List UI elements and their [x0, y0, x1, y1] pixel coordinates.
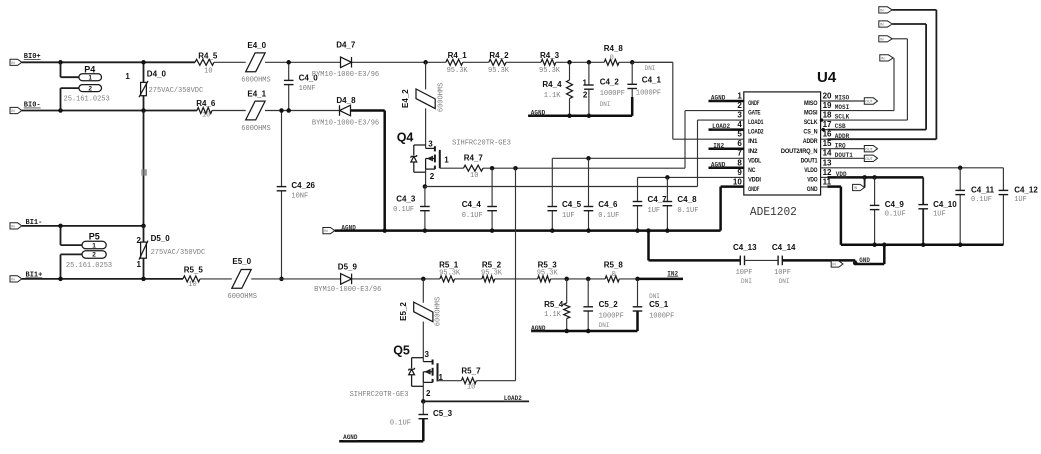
wire SCLK [827, 119, 907, 121]
svg-text:D4_8: D4_8 [336, 96, 356, 105]
node C4_8 bottom [665, 228, 670, 233]
resistor R5_4 [566, 279, 568, 303]
svg-text:18: 18 [823, 111, 832, 120]
capacitor C4_7 [637, 177, 639, 201]
svg-text:BYM10-1000-E3/96: BYM10-1000-E3/96 [314, 286, 381, 294]
wire P4 pin1 connection [60, 62, 62, 77]
svg-text:R5_8: R5_8 [604, 260, 624, 269]
capacitor C4_11 [959, 168, 961, 191]
node BI1+ junction P5 [58, 277, 63, 282]
svg-text:1: 1 [737, 91, 742, 100]
wire AGND to C4_13 [647, 231, 650, 261]
svg-text:C4_9: C4_9 [885, 200, 905, 209]
pin 3 LOAD1 [737, 119, 744, 121]
resistor R4_3 [541, 59, 556, 65]
svg-text:95.3K: 95.3K [439, 269, 461, 277]
port GND [831, 261, 843, 267]
svg-text:8: 8 [737, 158, 742, 167]
wire R5_7 to gate net [476, 380, 515, 382]
capacitor C4_3 [424, 187, 426, 207]
port CSB in [879, 21, 892, 27]
svg-text:C4_1: C4_1 [642, 76, 662, 85]
svg-text:10: 10 [733, 177, 742, 186]
IC U4 body [744, 92, 821, 195]
wire AGND segment lower [531, 330, 637, 333]
svg-text:BI1-: BI1- [26, 219, 43, 227]
resistor R5_8 [605, 276, 619, 282]
svg-text:IN: IN [324, 229, 328, 233]
svg-text:NC: NC [748, 167, 756, 174]
svg-text:E5_0: E5_0 [232, 257, 251, 266]
svg-text:P4: P4 [84, 64, 95, 74]
node D4_0 bottom [141, 108, 146, 113]
svg-text:OUT: OUT [865, 100, 873, 104]
svg-text:BI1+: BI1+ [26, 272, 43, 280]
svg-text:95.3K: 95.3K [481, 269, 503, 277]
svg-text:2: 2 [737, 101, 742, 110]
svg-text:C4_6: C4_6 [598, 200, 618, 209]
diode D4_8 [340, 105, 351, 116]
svg-text:1: 1 [88, 75, 92, 82]
node R5_7 gate junction [513, 166, 518, 171]
svg-text:LOAD2: LOAD2 [504, 395, 522, 402]
svg-text:BYM10-1000-E3/96: BYM10-1000-E3/96 [312, 120, 379, 128]
node C4_26 bottom [279, 277, 284, 282]
svg-text:DNI: DNI [649, 293, 660, 300]
svg-text:AGND: AGND [343, 434, 358, 441]
port DOUT1 out [864, 155, 877, 161]
svg-text:U4: U4 [817, 69, 837, 86]
svg-text:1UF: 1UF [648, 207, 661, 215]
node C4_26 top [279, 108, 284, 113]
node R5_4 top [564, 277, 569, 282]
svg-text:C4_7: C4_7 [648, 195, 668, 204]
wire P4 pin2 connection [60, 88, 62, 110]
svg-text:0.1UF: 0.1UF [393, 206, 414, 214]
resistor R4_1 [446, 59, 463, 65]
svg-text:0: 0 [610, 55, 614, 63]
svg-text:D4_7: D4_7 [336, 40, 356, 49]
resistor R5_2 [482, 276, 495, 282]
node C5_2 top [586, 277, 591, 282]
port ADDR in [879, 7, 892, 13]
resistor R4_4 [569, 62, 571, 80]
svg-text:2: 2 [92, 252, 96, 259]
svg-text:GND: GND [807, 186, 818, 193]
svg-text:10: 10 [188, 281, 196, 289]
pin 2 GATE [737, 110, 744, 112]
svg-text:1000PF: 1000PF [649, 312, 674, 320]
port IRQ out [864, 146, 877, 152]
pin 17 CS_N bubble [822, 128, 825, 131]
svg-text:IN2: IN2 [748, 148, 758, 155]
wire divider output to IN1 [632, 61, 673, 63]
svg-text:MOSI: MOSI [835, 104, 850, 111]
svg-text:IN1: IN1 [748, 138, 758, 145]
svg-text:25.161.0253: 25.161.0253 [66, 262, 112, 270]
node BI0+ / P4 junction [58, 60, 63, 65]
svg-text:C4_13: C4_13 [733, 243, 757, 252]
svg-text:C5_2: C5_2 [599, 300, 619, 309]
capacitor C4_0 [288, 62, 290, 80]
capacitor C4_9 [874, 177, 876, 205]
wire C4_13 to C4_14 [745, 259, 779, 261]
wire BI0- to BI1- vertical [143, 111, 145, 226]
svg-text:R4_2: R4_2 [489, 51, 509, 60]
svg-text:C4_14: C4_14 [772, 243, 796, 252]
svg-text:D5_0: D5_0 [151, 234, 171, 243]
svg-text:IN2: IN2 [667, 270, 678, 277]
svg-text:CSB: CSB [835, 123, 846, 130]
svg-text:P5: P5 [89, 231, 100, 241]
wire AGND bus [335, 229, 721, 232]
node D4_0 top [141, 60, 146, 65]
svg-text:GNDF: GNDF [748, 186, 759, 193]
pin 10 GNDF [737, 186, 744, 188]
svg-text:IRQ: IRQ [835, 142, 846, 149]
svg-text:CS_N: CS_N [803, 129, 817, 136]
node BI1- varistor junction [141, 224, 146, 229]
svg-text:BI0-: BI0- [24, 102, 41, 110]
node R4_4 bottom [567, 114, 572, 119]
diode D4_7 [341, 57, 352, 68]
svg-text:ADDR: ADDR [835, 133, 850, 140]
svg-text:MOSI: MOSI [804, 110, 818, 117]
svg-text:3: 3 [737, 111, 742, 120]
svg-text:MISO: MISO [835, 95, 850, 102]
port VDD in [853, 184, 865, 190]
svg-text:E4_2: E4_2 [401, 89, 410, 108]
node C4_2 top [587, 60, 592, 65]
resistor R4_6 [197, 108, 212, 114]
svg-text:VDDL: VDDL [748, 157, 761, 164]
svg-text:E4_0: E4_0 [247, 41, 266, 50]
pin 18 SCLK bubble [820, 118, 823, 121]
node BI0- / P4 junction [58, 108, 63, 113]
svg-text:R4_8: R4_8 [604, 44, 624, 53]
svg-text:C4_10: C4_10 [933, 200, 957, 209]
pin 15 DOUT2/IRQ_N [821, 148, 828, 150]
node C4_7 bottom [635, 228, 640, 233]
wire LOAD2 stub [423, 400, 529, 402]
ferrite bead E4_0 [246, 53, 265, 72]
svg-text:SIHFRC20TR-GE3: SIHFRC20TR-GE3 [350, 391, 409, 399]
pin 19 MOSI [821, 110, 828, 112]
node C4_9 bottom [872, 243, 877, 248]
svg-text:D5_9: D5_9 [338, 263, 358, 272]
svg-text:C5_3: C5_3 [433, 409, 453, 418]
svg-text:IN: IN [880, 9, 884, 13]
capacitor C4_10 [922, 177, 924, 204]
svg-text:R4_6: R4_6 [196, 99, 216, 108]
svg-text:95.3K: 95.3K [488, 67, 510, 75]
svg-text:R5_3: R5_3 [538, 260, 558, 269]
capacitor C5_3 [422, 401, 424, 414]
svg-text:2: 2 [88, 86, 92, 93]
svg-text:DNI: DNI [600, 101, 611, 108]
node C4_6 top [586, 156, 591, 161]
port SCLK in [879, 36, 892, 42]
pin 7 VDDL [737, 157, 744, 159]
wire VDD port drop [864, 177, 866, 187]
svg-text:1: 1 [125, 72, 130, 81]
capacitor C4_4 [491, 168, 493, 206]
svg-text:14: 14 [823, 149, 832, 158]
pin 16 ADDR [821, 138, 828, 140]
svg-text:10NF: 10NF [291, 193, 308, 201]
port BI0+ [10, 59, 22, 65]
wire C5_3 to AGND [339, 440, 423, 443]
node C4_10 bottom [921, 243, 926, 248]
svg-text:3: 3 [428, 140, 433, 149]
svg-text:19: 19 [823, 101, 832, 110]
svg-text:C4_11: C4_11 [971, 185, 995, 194]
svg-text:10: 10 [470, 172, 478, 180]
node C4_2 bottom [587, 114, 592, 119]
node C4_5 bottom [550, 228, 555, 233]
node AGND drop junction [646, 228, 651, 233]
node GND drop [882, 243, 887, 248]
svg-text:6: 6 [737, 139, 742, 148]
node Q5 drain LOAD2 junction [421, 399, 426, 404]
svg-text:1.1K: 1.1K [544, 92, 562, 100]
capacitor C4_14 [777, 256, 779, 266]
resistor R5_1 [440, 276, 455, 282]
wire MOSI [827, 110, 894, 112]
svg-text:R4_7: R4_7 [464, 153, 484, 162]
svg-text:GND: GND [859, 257, 870, 264]
svg-text:1: 1 [92, 242, 96, 249]
svg-text:IN: IN [11, 61, 15, 65]
pin 8 NC [737, 167, 744, 169]
wire ADDR [827, 138, 936, 140]
resistor R4_8 [604, 59, 619, 65]
resistor R4_5 [195, 59, 214, 65]
node VDD port junction [862, 175, 867, 180]
svg-text:IN: IN [880, 37, 884, 41]
node C4_11 top [958, 166, 963, 171]
svg-text:275VAC/350VDC: 275VAC/350VDC [149, 87, 204, 95]
pin 9 VDDI [737, 176, 744, 178]
svg-text:0.1UF: 0.1UF [598, 212, 619, 220]
node D4_8 AGND junction [382, 228, 387, 233]
svg-text:3: 3 [425, 350, 430, 359]
svg-text:600OHMS: 600OHMS [438, 83, 446, 112]
wire BI1- rail [22, 225, 144, 227]
wire CSB [827, 129, 926, 131]
svg-text:5: 5 [737, 130, 742, 139]
svg-text:10PF: 10PF [774, 269, 791, 277]
net label AGND pin8 [709, 167, 744, 170]
capacitor C4_2 [588, 62, 590, 85]
svg-text:1: 1 [582, 78, 587, 87]
svg-text:95.3K: 95.3K [539, 67, 561, 75]
svg-text:LOAD2: LOAD2 [748, 129, 764, 136]
node E5_2 top [421, 277, 426, 282]
wire C4_14 to GND [782, 259, 855, 262]
wire VDDL net [552, 157, 737, 159]
svg-text:25.161.0253: 25.161.0253 [64, 96, 110, 104]
svg-text:IN2: IN2 [713, 142, 724, 149]
svg-text:IN: IN [880, 23, 884, 27]
svg-text:DOUT1: DOUT1 [835, 152, 853, 159]
pin 5 IN1 [737, 138, 744, 140]
svg-text:R5_2: R5_2 [482, 260, 502, 269]
resistor R5_7 [461, 378, 476, 384]
capacitor C4_12 [1002, 168, 1004, 191]
svg-text:10: 10 [467, 384, 475, 392]
svg-text:VDDI: VDDI [748, 176, 761, 183]
capacitor C5_2 [587, 279, 589, 307]
svg-text:10NF: 10NF [299, 85, 316, 93]
svg-text:R5_4: R5_4 [544, 300, 564, 309]
pin 14 DOUT1 [821, 157, 828, 159]
wire IN2 stub [638, 278, 684, 281]
wire P5 pin1 connection [60, 226, 62, 245]
svg-text:BI0+: BI0+ [24, 53, 41, 61]
node BI1+ varistor junction [141, 277, 146, 282]
wire MISO to port [827, 100, 864, 102]
svg-text:2: 2 [583, 91, 588, 100]
svg-text:BYM10-1000-E3/96: BYM10-1000-E3/96 [312, 71, 379, 79]
port BI1+ [10, 276, 22, 282]
svg-text:IN: IN [11, 109, 15, 113]
svg-text:600OHMS: 600OHMS [228, 293, 257, 301]
svg-text:C4_5: C4_5 [562, 200, 582, 209]
capacitor C4_26 [281, 111, 283, 187]
wire R5_7 vertical [515, 168, 517, 381]
svg-text:C5_1: C5_1 [649, 300, 669, 309]
pin 12 VDO [821, 176, 828, 178]
pin 13 VLDO [821, 167, 828, 169]
svg-text:0.1UF: 0.1UF [885, 211, 906, 219]
svg-text:IN: IN [881, 57, 885, 61]
svg-text:15: 15 [823, 139, 832, 148]
svg-text:4: 4 [737, 120, 742, 129]
svg-text:1000PF: 1000PF [599, 312, 624, 320]
wire D4_8 to AGND bus [383, 111, 386, 231]
svg-text:DNI: DNI [741, 278, 752, 285]
node GND port junction [853, 261, 858, 266]
svg-text:1UF: 1UF [562, 212, 575, 220]
diode D5_9 [341, 274, 352, 285]
svg-text:VDO: VDO [807, 176, 817, 183]
svg-text:R5_5: R5_5 [184, 266, 204, 275]
svg-text:SIHFRC20TR-GE3: SIHFRC20TR-GE3 [452, 140, 511, 148]
svg-text:0.1UF: 0.1UF [390, 420, 411, 428]
svg-text:17: 17 [823, 120, 832, 129]
svg-text:IN: IN [854, 186, 858, 190]
svg-text:ADDR: ADDR [803, 138, 818, 145]
svg-text:C4_3: C4_3 [396, 195, 416, 204]
svg-text:Q5: Q5 [393, 344, 410, 358]
node E4_2 top [423, 60, 428, 65]
svg-text:DOUT2/IRQ_N: DOUT2/IRQ_N [781, 148, 818, 155]
svg-text:0: 0 [612, 271, 616, 279]
node C4_6 bottom [586, 228, 591, 233]
svg-text:IN: IN [11, 278, 15, 282]
wire VDDI net [638, 176, 738, 178]
capacitor C4_1 [631, 62, 633, 84]
svg-text:10: 10 [204, 67, 212, 75]
node C4_0 top [286, 60, 291, 65]
svg-text:Q4: Q4 [397, 131, 414, 145]
port MOSI in [880, 55, 893, 61]
svg-text:C4_4: C4_4 [462, 200, 482, 209]
node C5_2 bottom [586, 329, 591, 334]
pin 4 LOAD2 [737, 129, 744, 131]
svg-text:AGND: AGND [531, 325, 546, 332]
svg-text:C4_26: C4_26 [291, 181, 315, 190]
svg-text:275VAC/350VDC: 275VAC/350VDC [151, 249, 206, 257]
wire Q5 gate to R5_7 [438, 380, 462, 382]
svg-text:2: 2 [137, 236, 142, 245]
svg-text:1UF: 1UF [1014, 196, 1027, 204]
svg-text:2: 2 [430, 172, 435, 181]
wire BI0- rail [22, 110, 197, 112]
svg-text:1000PF: 1000PF [636, 90, 661, 98]
svg-text:IN: IN [11, 225, 15, 229]
node C4_1 top [630, 60, 635, 65]
svg-text:20: 20 [823, 91, 832, 100]
svg-text:LOAD1: LOAD1 [748, 119, 764, 126]
svg-text:95.3K: 95.3K [537, 269, 559, 277]
svg-text:R4_1: R4_1 [448, 51, 468, 60]
wire VDD pin12 [827, 176, 923, 179]
svg-text:AGND: AGND [711, 161, 726, 168]
ferrite bead E4_2 [425, 62, 427, 89]
node Q4 source LOAD1 junction [423, 184, 428, 189]
svg-text:95.3K: 95.3K [447, 67, 469, 75]
capacitor C4_8 [666, 177, 668, 201]
svg-text:10PF: 10PF [736, 269, 753, 277]
port MISO out [864, 98, 877, 104]
svg-text:DNI: DNI [599, 322, 610, 329]
svg-text:10: 10 [202, 111, 210, 119]
net label AGND pin1 [709, 100, 744, 103]
svg-text:R5_1: R5_1 [439, 260, 459, 269]
node BI1- junction P5 [58, 224, 63, 229]
node C4_0 bottom [286, 108, 291, 113]
wire AGND segment upper [528, 115, 632, 118]
svg-text:DOUT1: DOUT1 [801, 157, 818, 164]
capacitor C4_13 [739, 256, 741, 266]
wire P5 pin2 connection [60, 254, 62, 279]
svg-text:SCLK: SCLK [835, 114, 850, 121]
svg-text:1000PF: 1000PF [600, 90, 625, 98]
pin 20 MISO [821, 100, 828, 102]
svg-text:D4_0: D4_0 [147, 69, 167, 78]
svg-text:600OHMS: 600OHMS [241, 125, 270, 133]
net label LOAD2 pin4 [709, 128, 744, 131]
node C4_9 top [872, 175, 877, 180]
svg-text:12: 12 [823, 168, 832, 177]
node C5_1 top [635, 277, 640, 282]
svg-text:R5_7: R5_7 [461, 367, 481, 376]
pin 17 CS_N [821, 129, 828, 131]
wire GNDF pin10 to AGND bus [721, 185, 744, 188]
svg-text:2: 2 [426, 389, 431, 398]
resistor R5_5 [183, 276, 200, 282]
port AGND mid [323, 228, 335, 234]
wire BI0+ rail [22, 61, 195, 63]
pin 11 GND [821, 186, 828, 188]
ferrite bead E5_2 [422, 279, 424, 303]
svg-text:R4_5: R4_5 [198, 51, 218, 60]
svg-text:SCLK: SCLK [804, 119, 818, 126]
svg-text:7: 7 [737, 149, 742, 158]
svg-text:VLDO: VLDO [804, 167, 817, 174]
